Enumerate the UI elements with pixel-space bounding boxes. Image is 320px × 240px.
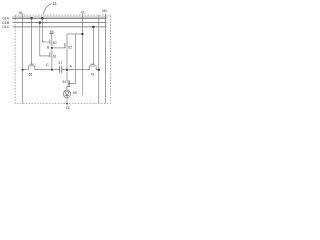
wire GLA to T63 gate: [31, 18, 33, 64]
transistor T41: [90, 64, 97, 70]
junction VL wire: [81, 33, 83, 35]
svg-text:ML: ML: [102, 9, 107, 13]
wire node A down: [66, 70, 68, 81]
svg-text:47: 47: [59, 61, 63, 65]
junction rail right: [98, 69, 100, 71]
wire node B to T62 gate: [52, 47, 65, 49]
monitor line ML: [104, 13, 106, 103]
wire GLC to T41 gate: [92, 27, 94, 64]
node C: [51, 69, 53, 71]
capacitor 47: [60, 66, 62, 72]
cathode arrow: [66, 103, 68, 105]
junction GLA-feed T63: [30, 17, 33, 20]
svg-text:VL: VL: [81, 11, 86, 15]
junction GLA-feed T60: [41, 17, 44, 20]
vertical net right: [98, 15, 100, 104]
callout leader 11: [43, 4, 51, 15]
gate line GLC: [13, 26, 107, 28]
svg-text:62: 62: [68, 45, 72, 49]
wire GLB to T61 gate: [40, 23, 50, 56]
transistor T61: [50, 48, 52, 70]
rail row: [23, 69, 99, 71]
gate line GLA: [13, 17, 107, 19]
wire GLA to T60 gate: [42, 18, 50, 42]
svg-text:B: B: [47, 46, 50, 50]
svg-text:60: 60: [53, 41, 57, 45]
svg-text:GLC: GLC: [2, 25, 10, 29]
pixel boundary dashed box: [15, 15, 110, 104]
svg-text:61: 61: [53, 54, 57, 58]
power line VL: [82, 14, 84, 70]
junction SL-rail: [22, 69, 24, 71]
node A: [66, 69, 68, 71]
svg-text:CL: CL: [66, 106, 71, 110]
svg-text:GLA: GLA: [2, 17, 10, 21]
wire VL to T64 gate: [68, 34, 76, 83]
svg-text:65: 65: [73, 91, 77, 95]
svg-text:63: 63: [29, 73, 33, 77]
gate line GLA ticks: [13, 16, 107, 18]
signal line SL: [22, 14, 24, 103]
svg-text:64: 64: [63, 80, 67, 84]
transistor T64: [67, 81, 70, 91]
junction GLB-feed T61: [39, 21, 42, 24]
power line VL tail: [82, 70, 84, 96]
OLED 65: [63, 90, 70, 97]
cathode lead: [66, 98, 68, 104]
transistor T60: [50, 39, 52, 48]
gate line GLB: [13, 22, 107, 24]
node B: [51, 47, 53, 49]
wire T62 drain to VL: [67, 33, 83, 35]
junction GLC-feed T41: [92, 26, 95, 29]
transistor T62: [65, 34, 67, 70]
svg-text:41: 41: [91, 73, 95, 77]
svg-text:A: A: [70, 65, 73, 69]
svg-text:C: C: [46, 63, 49, 67]
svg-text:11: 11: [52, 1, 57, 6]
transistor T63: [29, 64, 35, 70]
